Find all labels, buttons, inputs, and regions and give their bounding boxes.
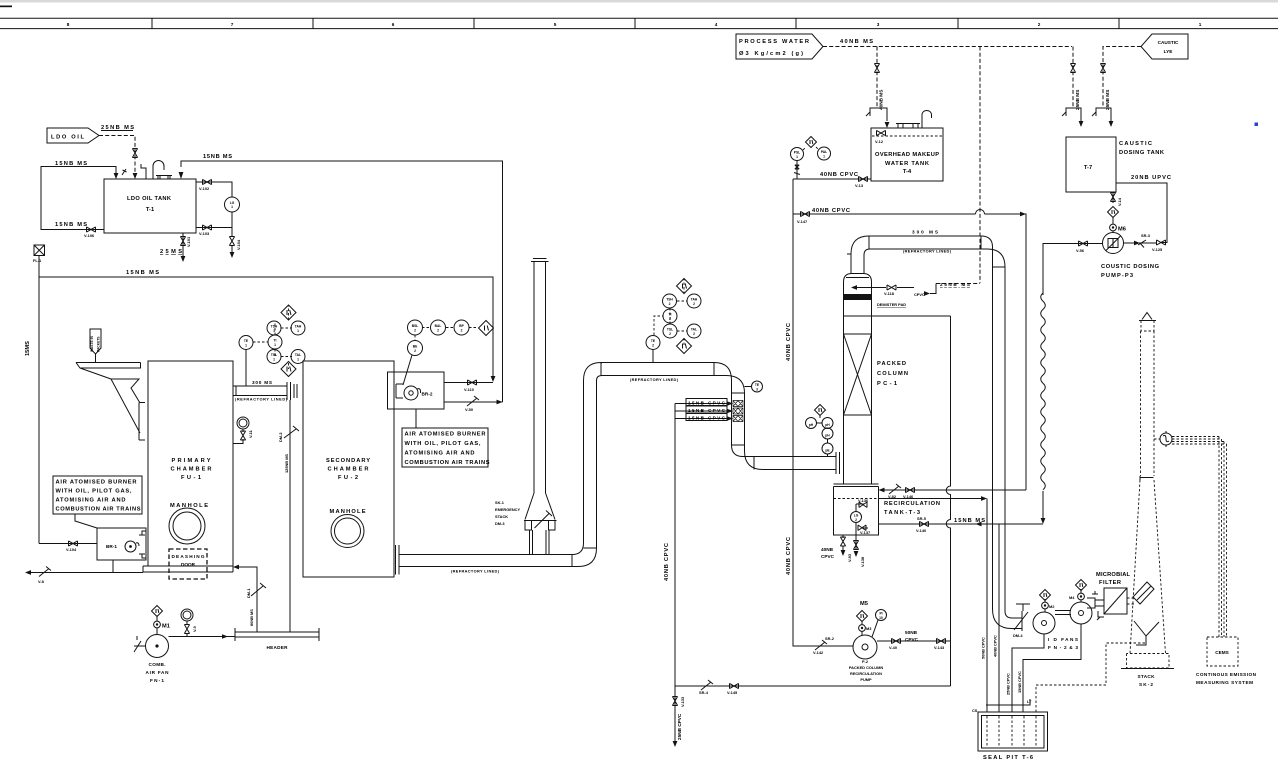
valve on 25NB dashed	[132, 149, 137, 158]
vent gooseneck on tank	[153, 161, 164, 179]
svg-text:1: 1	[273, 329, 275, 333]
svg-text:MEASURING SYSTEM: MEASURING SYSTEM	[1196, 680, 1253, 685]
svg-text:BSL: BSL	[412, 324, 419, 328]
svg-text:DM-1: DM-1	[246, 588, 251, 598]
wire BR-1 bottom to V-8 line	[112, 560, 114, 573]
caustic dosing tank T-7	[1066, 137, 1116, 192]
svg-text:M3: M3	[866, 626, 872, 631]
svg-text:V-40: V-40	[889, 645, 897, 650]
TE-2 on duct	[646, 336, 660, 350]
svg-text:PSL: PSL	[794, 151, 800, 155]
instrument cluster TE-2 group	[654, 279, 687, 345]
filter outlet dashed duct	[1127, 598, 1136, 604]
LT dashed line	[1036, 643, 1146, 712]
air atomised burner text box (left)	[53, 476, 142, 514]
packing X section	[844, 334, 872, 415]
svg-text:BR-1: BR-1	[106, 544, 117, 549]
svg-text:1: 1	[297, 329, 299, 333]
svg-text:40NB MS: 40NB MS	[840, 39, 873, 45]
svg-text:40NB MS: 40NB MS	[879, 90, 884, 110]
top border strip	[0, 0, 1278, 3]
svg-text:125NB MS: 125NB MS	[284, 454, 289, 473]
svg-text:SR-2: SR-2	[825, 636, 835, 641]
svg-text:2: 2	[652, 344, 654, 348]
svg-text:25NB CPVC: 25NB CPVC	[1006, 673, 1011, 695]
recirculation tank T-3	[834, 487, 879, 536]
flue gas flange at FU-2 outlet	[396, 545, 400, 575]
svg-text:300 MS: 300 MS	[252, 380, 272, 385]
P3 discharge right	[1124, 242, 1157, 244]
top duct run to scrubber	[584, 363, 837, 457]
svg-text:LYE: LYE	[1164, 49, 1173, 54]
svg-text:1: 1	[273, 358, 275, 362]
svg-text:STACK: STACK	[495, 514, 508, 519]
svg-text:pH: pH	[809, 423, 814, 427]
svg-text:25NB MS: 25NB MS	[1105, 90, 1110, 110]
valve V-8 line	[31, 572, 143, 574]
svg-text:V-12: V-12	[875, 139, 884, 144]
svg-text:PUMP-P3: PUMP-P3	[1101, 273, 1133, 279]
CEMS box	[1207, 637, 1238, 666]
svg-text:CHAMBER: CHAMBER	[328, 467, 369, 473]
svg-text:TAL: TAL	[295, 353, 301, 357]
svg-text:M4: M4	[1069, 595, 1075, 600]
wire dashed 25NB to tank	[99, 136, 135, 175]
svg-text:V-143: V-143	[934, 645, 945, 650]
svg-text:1: 1	[245, 344, 247, 348]
svg-text:BE: BE	[413, 345, 418, 349]
svg-text:AIR ATOMISED BURNER: AIR ATOMISED BURNER	[56, 480, 137, 486]
PROCESS WATER flag	[736, 34, 823, 59]
drain valve below riser	[674, 686, 676, 741]
svg-text:PUMP: PUMP	[860, 677, 872, 682]
svg-text:300 MS: 300 MS	[912, 230, 938, 235]
bottom return line y=686	[675, 685, 951, 687]
svg-text:(REFRACTORY LINED): (REFRACTORY LINED)	[451, 569, 500, 574]
svg-text:FN-1: FN-1	[150, 678, 164, 683]
tank T-1	[104, 179, 196, 233]
diamond above M1	[152, 606, 163, 617]
svg-text:OVERHEAD MAKEUP: OVERHEAD MAKEUP	[875, 152, 939, 158]
svg-text:25NB CPVC: 25NB CPVC	[677, 713, 682, 740]
main 40NB CPVC riser x=793	[793, 179, 853, 646]
svg-text:V-14: V-14	[1117, 197, 1122, 206]
burner BR-1	[97, 528, 146, 560]
svg-text:V-13: V-13	[855, 183, 864, 188]
svg-text:2: 2	[414, 349, 416, 353]
svg-text:MICROBIAL: MICROBIAL	[1096, 572, 1131, 578]
svg-text:STACK: STACK	[1138, 674, 1156, 679]
svg-text:TI: TI	[669, 313, 672, 317]
svg-text:2: 2	[437, 329, 439, 333]
sample probe S	[1160, 433, 1172, 445]
svg-text:LDO OIL TANK: LDO OIL TANK	[127, 196, 172, 202]
svg-text:50NB CPVC: 50NB CPVC	[981, 637, 986, 659]
svg-text:1: 1	[231, 205, 233, 209]
svg-text:SK-2: SK-2	[1139, 682, 1153, 687]
svg-text:pH: pH	[825, 434, 830, 438]
svg-text:2: 2	[669, 302, 671, 306]
svg-text:40NB CPVC: 40NB CPVC	[786, 537, 792, 575]
waste in packets flag	[90, 329, 101, 354]
svg-text:WATER TANK: WATER TANK	[885, 161, 930, 167]
svg-text:V-136: V-136	[858, 498, 869, 503]
300 MS duct between chambers	[233, 386, 287, 396]
PG tap on FU-1 wall	[237, 417, 249, 429]
wavy flexible caustic line	[1041, 293, 1046, 490]
svg-text:COMBUSTION AIR TRAINS: COMBUSTION AIR TRAINS	[56, 507, 141, 513]
LG-2	[851, 512, 862, 523]
svg-text:V-104: V-104	[236, 239, 241, 250]
duct elbow to ID fans	[993, 609, 1023, 629]
base plate FU-1	[143, 566, 233, 572]
svg-text:V-56: V-56	[1076, 248, 1085, 253]
svg-text:V-83: V-83	[847, 553, 852, 562]
svg-text:(REFRACTORY LINED): (REFRACTORY LINED)	[630, 377, 679, 382]
damper DM-4	[1014, 604, 1030, 631]
svg-text:PACKED COLUMN: PACKED COLUMN	[849, 665, 883, 670]
line across column at y=316 going right and down	[844, 315, 951, 317]
svg-text:WITH OIL, PILOT GAS,: WITH OIL, PILOT GAS,	[56, 489, 132, 495]
tank bottom drains	[843, 535, 856, 550]
svg-text:40NB CPVC: 40NB CPVC	[820, 172, 858, 178]
svg-text:V-8: V-8	[38, 579, 45, 584]
wire fan to header	[169, 636, 236, 638]
svg-text:40NB CPVC: 40NB CPVC	[812, 208, 850, 214]
svg-text:(REFRACTORY LINED): (REFRACTORY LINED)	[903, 249, 952, 254]
svg-text:2: 2	[693, 302, 695, 306]
svg-text:V-147: V-147	[797, 219, 807, 224]
column cap	[844, 274, 872, 283]
svg-text:25NB MS: 25NB MS	[1075, 90, 1080, 110]
level gauge LG 1	[225, 197, 240, 212]
svg-text:7: 7	[231, 22, 234, 27]
svg-text:DEMISTER PAD: DEMISTER PAD	[877, 302, 906, 307]
svg-text:AIR FAN: AIR FAN	[146, 670, 170, 675]
svg-text:80NB MS: 80NB MS	[249, 609, 254, 626]
svg-text:DM-4: DM-4	[1013, 633, 1023, 638]
svg-text:TSL: TSL	[271, 353, 277, 357]
valve V-102 line	[196, 182, 232, 197]
80NB MS riser with damper DM-1	[238, 567, 257, 632]
svg-text:SECONDARY: SECONDARY	[326, 458, 370, 464]
hopper chute	[76, 363, 141, 434]
svg-text:FILTER: FILTER	[1099, 580, 1121, 586]
svg-text:6: 6	[392, 22, 395, 27]
wire BR-2 to V-110	[444, 382, 493, 384]
svg-text:M5: M5	[860, 601, 868, 607]
air atomised burner text box (right)	[402, 428, 488, 467]
svg-text:V-50: V-50	[465, 407, 473, 412]
flame arrestor FL-1	[34, 245, 45, 256]
LDO OIL flag	[47, 128, 99, 143]
ID fan FN-3	[1070, 602, 1092, 624]
secondary chamber FU-2	[303, 361, 394, 577]
svg-text:4: 4	[715, 22, 718, 27]
svg-text:TAL: TAL	[691, 328, 697, 332]
svg-text:V-138: V-138	[860, 556, 865, 567]
dashed overflow line to right	[879, 498, 982, 500]
svg-text:T-1: T-1	[146, 207, 154, 213]
svg-text:COMB.: COMB.	[149, 662, 166, 667]
svg-text:TSL: TSL	[667, 328, 673, 332]
packed column body	[844, 282, 872, 484]
svg-text:15NB MS: 15NB MS	[126, 270, 159, 276]
TE-3 at duct elbow	[752, 381, 763, 392]
svg-text:2: 2	[1038, 22, 1041, 27]
svg-text:2: 2	[669, 317, 671, 321]
svg-text:ATOMISING AIR AND: ATOMISING AIR AND	[56, 498, 126, 504]
svg-text:BP: BP	[459, 324, 464, 328]
flange at column inlet	[836, 452, 840, 474]
discharge 50NB CPVC	[877, 640, 951, 642]
seal pit feed risers	[987, 499, 999, 713]
svg-text:COUSTIC DOSING: COUSTIC DOSING	[1101, 264, 1160, 270]
instrument cluster TE-1 group	[253, 305, 292, 369]
svg-text:2: 2	[855, 518, 857, 522]
valve V-103 line	[196, 227, 232, 229]
P3 suction left to wavy	[1043, 244, 1103, 296]
svg-text:1: 1	[274, 343, 276, 347]
svg-text:M2: M2	[1049, 604, 1055, 609]
three 15NB CPVC spray lines	[675, 404, 728, 419]
svg-text:AIR ATOMISED BURNER: AIR ATOMISED BURNER	[405, 432, 486, 438]
dashed branch down at x=980	[979, 47, 981, 284]
motor M1	[154, 621, 161, 628]
svg-text:BAL: BAL	[435, 324, 442, 328]
svg-text:V-110: V-110	[464, 387, 474, 392]
svg-text:1: 1	[297, 358, 299, 362]
svg-text:10: 10	[879, 616, 883, 620]
svg-text:T-4: T-4	[903, 169, 912, 175]
internal drain funnel	[1134, 621, 1159, 645]
svg-text:40NB: 40NB	[821, 547, 834, 552]
svg-text:V-145: V-145	[727, 690, 738, 695]
svg-text:RECIRCULATION: RECIRCULATION	[850, 671, 882, 676]
svg-text:WITH OIL, PILOT GAS,: WITH OIL, PILOT GAS,	[405, 441, 481, 447]
caustic dosing pump P3	[1103, 233, 1124, 254]
svg-text:2: 2	[669, 332, 671, 336]
svg-text:2: 2	[693, 332, 695, 336]
svg-text:PROCESS WATER: PROCESS WATER	[739, 39, 809, 45]
svg-text:V-118: V-118	[884, 291, 895, 296]
svg-text:V-137: V-137	[860, 530, 870, 535]
svg-text:M6: M6	[1118, 227, 1126, 233]
svg-text:1: 1	[1199, 22, 1202, 27]
TI tick at tank top	[122, 169, 127, 175]
svg-text:15NB MS: 15NB MS	[55, 222, 87, 228]
caustic pump P3 suction stack	[1112, 192, 1114, 203]
branch to T-4	[876, 47, 878, 109]
svg-text:3: 3	[756, 388, 758, 392]
svg-text:pH: pH	[825, 423, 830, 427]
primary chamber FU-1	[148, 361, 233, 566]
svg-text:V-104: V-104	[66, 547, 77, 552]
overhead makeup water tank T-4	[871, 128, 943, 181]
makeup line into tank y=490	[884, 489, 1026, 491]
svg-text:M1: M1	[162, 624, 170, 630]
suction from riser	[815, 640, 827, 650]
svg-text:RECIRCULATION: RECIRCULATION	[884, 501, 940, 507]
svg-text:EMERGENCY: EMERGENCY	[495, 507, 520, 512]
ID fan FN-2	[1033, 612, 1055, 634]
svg-text:DOSING TANK: DOSING TANK	[1119, 150, 1165, 156]
svg-text:PAL: PAL	[821, 150, 827, 154]
svg-text:PACKETS: PACKETS	[97, 336, 101, 352]
burner BR-2	[388, 372, 445, 409]
svg-text:V-125: V-125	[1152, 247, 1163, 252]
PSL PAL group	[791, 148, 804, 161]
svg-text:8: 8	[67, 22, 70, 27]
svg-text:15MS: 15MS	[25, 341, 31, 356]
svg-text:TAH: TAH	[691, 298, 698, 302]
CEMS signal bundle	[1172, 437, 1227, 445]
300 MS duct column top to right elbow	[851, 236, 1005, 611]
bottom drain 25MS	[182, 233, 184, 256]
svg-text:TSH: TSH	[666, 298, 673, 302]
svg-text:V-140: V-140	[916, 528, 926, 533]
svg-text:V-103: V-103	[199, 231, 210, 236]
svg-text:PI: PI	[879, 612, 882, 616]
svg-text:HEADER: HEADER	[267, 645, 289, 650]
svg-text:2: 2	[414, 329, 416, 333]
pH instrument group	[815, 405, 826, 416]
fan outlet box and duct to filter	[1087, 591, 1098, 608]
inclined inlet duct to stack	[1133, 582, 1154, 604]
svg-text:40NB CPVC: 40NB CPVC	[993, 635, 998, 657]
svg-text:15NB CPVC: 15NB CPVC	[1017, 671, 1022, 693]
inter-fan duct	[1055, 611, 1071, 615]
wire V-104 to BR-1	[39, 543, 97, 545]
svg-text:SR-4: SR-4	[699, 690, 709, 695]
svg-text:PACKED: PACKED	[877, 361, 906, 367]
40NB CPVC quench riser	[674, 404, 676, 687]
svg-text:CEMS: CEMS	[1215, 650, 1229, 655]
V-118 line	[856, 284, 936, 294]
wire BR-2 to V-50	[444, 401, 503, 403]
svg-text:FU-1: FU-1	[181, 475, 201, 481]
blue mark	[1255, 123, 1259, 127]
svg-text:V-102: V-102	[199, 186, 210, 191]
svg-text:TAH: TAH	[295, 325, 302, 329]
column base / tank top	[834, 484, 879, 487]
svg-text:DM-2: DM-2	[278, 432, 283, 442]
svg-text:V-11: V-11	[248, 429, 253, 438]
svg-text:CONTINOUS EMISSION: CONTINOUS EMISSION	[1196, 672, 1257, 677]
svg-text:LT: LT	[1027, 699, 1032, 704]
svg-text:15NB MS: 15NB MS	[203, 154, 232, 160]
svg-text:2: 2	[461, 329, 463, 333]
svg-text:TI: TI	[274, 339, 277, 343]
deashing door dashed	[169, 549, 207, 579]
svg-text:SR-3: SR-3	[1141, 233, 1151, 238]
hatch box on tank top	[156, 176, 172, 180]
svg-text:40NB CPVC: 40NB CPVC	[664, 543, 670, 581]
svg-text:20NB UPVC: 20NB UPVC	[1131, 175, 1171, 181]
svg-text:CAUSTIC: CAUSTIC	[1119, 141, 1152, 147]
CAUSTIC LYE flag	[1141, 34, 1188, 59]
svg-text:40NB CPVC: 40NB CPVC	[786, 323, 792, 361]
svg-text:ATOMISING AIR AND: ATOMISING AIR AND	[405, 451, 475, 457]
PG on fan line	[181, 609, 193, 621]
svg-text:FL-1: FL-1	[33, 258, 42, 263]
instrument cluster BSL-2 group	[415, 328, 478, 342]
svg-text:3: 3	[877, 22, 880, 27]
svg-text:5: 5	[554, 22, 557, 27]
svg-text:50NB: 50NB	[905, 630, 918, 635]
svg-text:LG: LG	[854, 514, 859, 518]
stack SK-2	[1139, 313, 1156, 321]
svg-text:V-106: V-106	[84, 233, 95, 238]
svg-text:COMBUSTION AIR TRAINS: COMBUSTION AIR TRAINS	[405, 460, 490, 466]
svg-text:CHAMBER: CHAMBER	[171, 467, 212, 473]
svg-text:V-142: V-142	[813, 650, 824, 655]
svg-text:COLUMN: COLUMN	[877, 371, 908, 377]
svg-text:CPVC: CPVC	[914, 292, 925, 297]
sample conn C at tank top	[141, 164, 146, 179]
fan drain lines	[1012, 634, 1044, 712]
svg-text:T-7: T-7	[1084, 165, 1092, 171]
svg-text:TSH: TSH	[271, 325, 278, 329]
svg-text:BR-2: BR-2	[422, 392, 433, 397]
svg-text:P-2: P-2	[862, 659, 869, 664]
overflow line into pit	[986, 699, 1030, 705]
125NB MS riser	[289, 400, 291, 632]
svg-text:DM-3: DM-3	[495, 521, 505, 526]
svg-text:CPVC: CPVC	[905, 637, 919, 642]
svg-text:CPVC: CPVC	[821, 554, 835, 559]
drain valve V-104a below LG	[229, 237, 234, 246]
svg-text:V-101: V-101	[186, 236, 191, 247]
svg-text:1: 1	[823, 155, 825, 159]
svg-text:(REFRACTORY LINED): (REFRACTORY LINED)	[235, 397, 288, 402]
svg-text:CS: CS	[972, 708, 978, 713]
svg-text:SK-1: SK-1	[495, 500, 505, 505]
svg-text:1: 1	[796, 155, 798, 159]
svg-text:CAUSTIC: CAUSTIC	[1158, 40, 1179, 45]
svg-text:TANK-T-3: TANK-T-3	[884, 510, 920, 516]
V-137 drain	[856, 523, 868, 536]
svg-text:PC-1: PC-1	[877, 381, 897, 387]
svg-text:WASTE IN: WASTE IN	[90, 335, 94, 352]
header	[235, 628, 319, 641]
V-136	[856, 504, 864, 512]
svg-text:FU-2: FU-2	[338, 475, 358, 481]
svg-text:SR-5: SR-5	[917, 516, 927, 521]
comb air fan FN-1	[146, 635, 169, 658]
demister pad	[844, 294, 871, 300]
seal pit T-6	[978, 712, 1048, 751]
svg-text:V-9: V-9	[192, 625, 197, 632]
microbial filter	[1104, 588, 1127, 614]
svg-text:V-133: V-133	[680, 696, 685, 707]
duct FU-2 to emergency stack run (refractory lined)	[399, 381, 597, 567]
